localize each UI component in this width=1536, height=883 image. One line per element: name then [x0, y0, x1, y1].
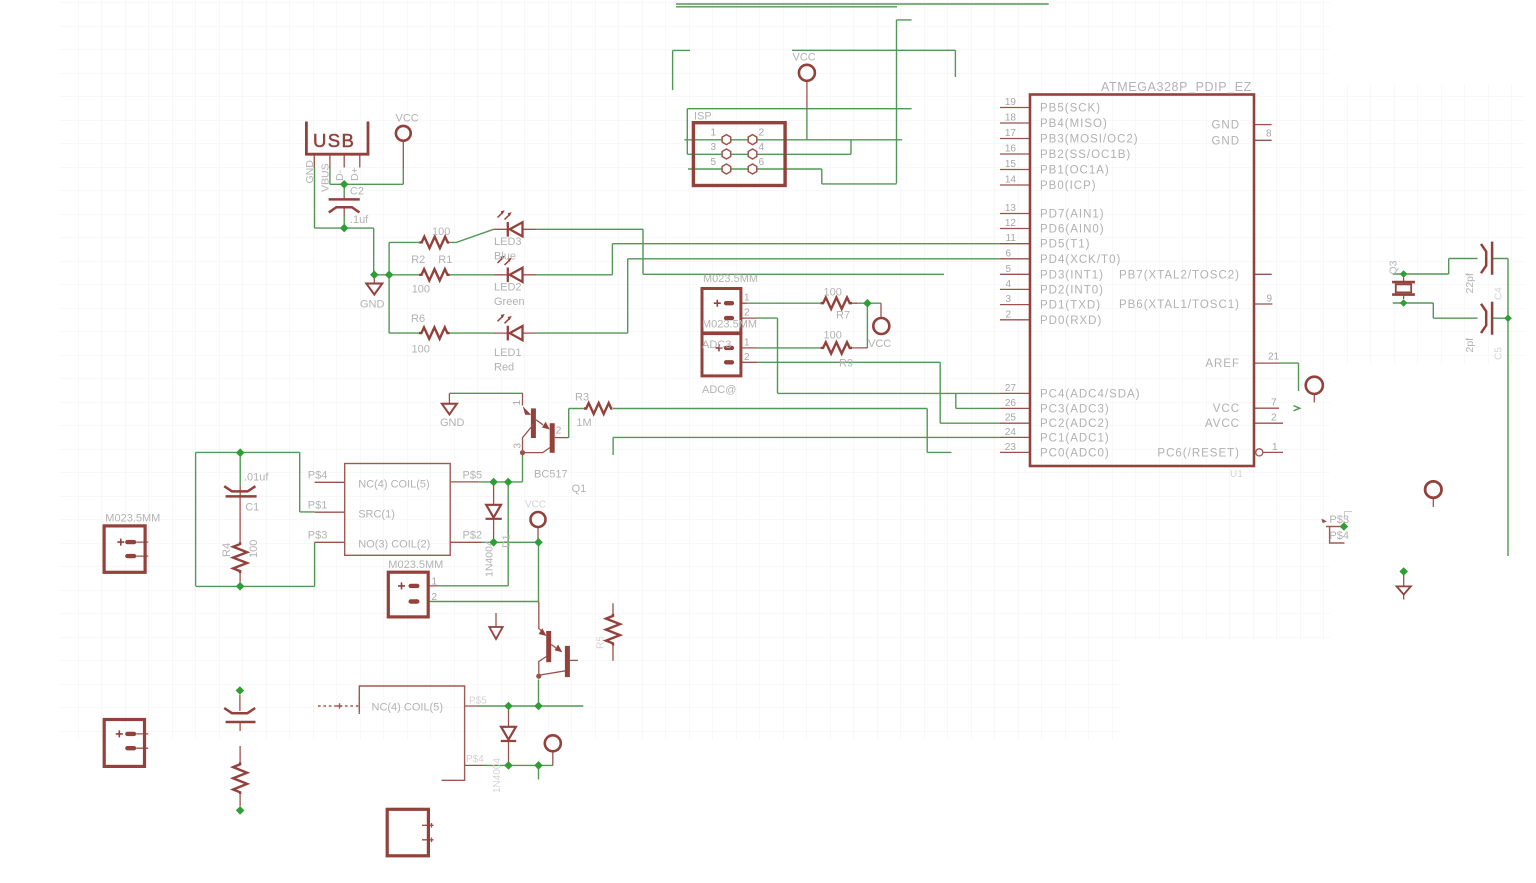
svg-text:8: 8 [1266, 129, 1272, 140]
svg-text:PB2(SS/OC1B): PB2(SS/OC1B) [1040, 149, 1131, 161]
svg-text:R2: R2 [411, 254, 425, 266]
svg-text:PD2(INT0): PD2(INT0) [1040, 284, 1104, 296]
svg-text:PD5(T1): PD5(T1) [1040, 239, 1090, 251]
svg-text:ADC@: ADC@ [702, 384, 736, 396]
svg-text:GND: GND [440, 417, 465, 429]
svg-text:P$3: P$3 [308, 530, 328, 542]
svg-text:PC4(ADC4/SDA): PC4(ADC4/SDA) [1040, 388, 1141, 400]
svg-text:Q1: Q1 [572, 483, 587, 495]
svg-text:D+: D+ [349, 167, 361, 181]
svg-text:1M: 1M [576, 417, 591, 429]
svg-text:2pf: 2pf [1464, 338, 1476, 353]
svg-text:C5: C5 [1494, 347, 1505, 360]
svg-text:LED2: LED2 [494, 281, 522, 293]
svg-text:PC6(/RESET): PC6(/RESET) [1157, 447, 1240, 459]
svg-text:100: 100 [824, 287, 842, 299]
svg-text:Q3: Q3 [1388, 260, 1400, 274]
svg-text:13: 13 [1005, 203, 1017, 214]
svg-text:SRC(1): SRC(1) [358, 509, 395, 521]
svg-text:15: 15 [1005, 159, 1017, 170]
svg-text:P$1: P$1 [308, 500, 328, 512]
svg-text:R4: R4 [221, 543, 233, 557]
svg-text:GND: GND [360, 299, 385, 311]
svg-text:PC3(ADC3): PC3(ADC3) [1040, 403, 1110, 415]
svg-text:2: 2 [744, 308, 750, 319]
svg-text:4: 4 [1005, 279, 1011, 290]
svg-text:26: 26 [1005, 398, 1017, 409]
svg-text:VCC: VCC [793, 52, 816, 64]
svg-text:R6: R6 [411, 313, 425, 325]
svg-text:14: 14 [1005, 175, 1017, 186]
svg-text:4: 4 [759, 142, 765, 153]
svg-text:PC0(ADC0): PC0(ADC0) [1040, 447, 1110, 459]
svg-text:11: 11 [1006, 233, 1017, 244]
svg-text:ATMEGA328P_PDIP_EZ: ATMEGA328P_PDIP_EZ [1101, 80, 1252, 94]
svg-text:VCC: VCC [525, 500, 546, 511]
svg-text:P$4: P$4 [308, 469, 328, 481]
svg-text:2: 2 [759, 128, 765, 139]
svg-text:PD0(RXD): PD0(RXD) [1040, 315, 1102, 327]
svg-text:17: 17 [1005, 128, 1017, 139]
svg-text:2: 2 [1271, 413, 1277, 424]
svg-text:100: 100 [248, 540, 260, 558]
svg-text:PC1(ADC1): PC1(ADC1) [1040, 432, 1110, 444]
svg-text:100: 100 [412, 284, 430, 296]
svg-text:5: 5 [1005, 264, 1011, 275]
svg-text:AREF: AREF [1205, 358, 1240, 370]
svg-text:27: 27 [1005, 383, 1017, 394]
svg-text:19: 19 [1005, 97, 1017, 108]
svg-text:R3: R3 [575, 392, 589, 404]
svg-text:R9: R9 [839, 358, 853, 370]
svg-text:Green: Green [494, 296, 525, 308]
svg-text:1: 1 [432, 576, 438, 587]
svg-text:100: 100 [432, 226, 450, 238]
svg-text:P$4: P$4 [466, 754, 484, 765]
svg-text:U1: U1 [1230, 469, 1243, 480]
svg-text:5: 5 [711, 157, 717, 168]
svg-text:VBUS: VBUS [320, 163, 332, 192]
svg-text:100: 100 [824, 329, 842, 341]
svg-text:25: 25 [1005, 413, 1017, 424]
svg-text:PD1(TXD): PD1(TXD) [1040, 300, 1101, 312]
svg-text:C2: C2 [350, 185, 364, 197]
svg-text:12: 12 [1005, 218, 1017, 229]
svg-text:3: 3 [513, 443, 524, 449]
svg-text:VCC: VCC [868, 338, 891, 350]
svg-text:1: 1 [744, 293, 750, 304]
svg-text:P$2: P$2 [463, 530, 483, 542]
svg-text:9: 9 [1267, 294, 1273, 305]
svg-text:M023.5MM: M023.5MM [105, 513, 160, 525]
svg-text:M023.5MM: M023.5MM [703, 273, 758, 285]
svg-text:R5: R5 [596, 636, 607, 649]
svg-text:NO(3) COIL(2): NO(3) COIL(2) [358, 539, 430, 551]
svg-text:M023.5MM: M023.5MM [702, 319, 757, 331]
svg-text:16: 16 [1005, 144, 1017, 155]
svg-text:PD3(INT1): PD3(INT1) [1040, 269, 1104, 281]
svg-text:P$4: P$4 [1329, 530, 1349, 542]
svg-text:PD7(AIN1): PD7(AIN1) [1040, 209, 1105, 221]
svg-text:1: 1 [711, 128, 717, 139]
svg-text:P$5: P$5 [469, 696, 487, 707]
svg-text:PB0(ICP): PB0(ICP) [1040, 180, 1097, 192]
svg-text:C4: C4 [1494, 287, 1505, 300]
svg-text:USB: USB [313, 130, 355, 151]
svg-text:PD4(XCK/T0): PD4(XCK/T0) [1040, 254, 1121, 266]
svg-text:GND: GND [1211, 120, 1240, 132]
svg-text:NC(4) COIL(5): NC(4) COIL(5) [358, 479, 430, 491]
svg-text:1: 1 [1272, 442, 1278, 453]
svg-text:D-: D- [334, 169, 346, 181]
svg-text:PB6(XTAL1/TOSC1): PB6(XTAL1/TOSC1) [1119, 299, 1240, 311]
svg-text:22pf: 22pf [1464, 273, 1476, 294]
svg-text:ISP: ISP [694, 111, 712, 123]
svg-text:C1: C1 [245, 502, 259, 514]
svg-text:24: 24 [1005, 427, 1017, 438]
svg-text:PB1(OC1A): PB1(OC1A) [1040, 165, 1110, 177]
svg-text:NC(4) COIL(5): NC(4) COIL(5) [372, 701, 444, 713]
svg-text:LED1: LED1 [494, 347, 522, 359]
svg-text:.1uf: .1uf [350, 214, 369, 226]
svg-text:3: 3 [711, 142, 717, 153]
svg-text:21: 21 [1268, 352, 1280, 363]
svg-text:1: 1 [512, 400, 523, 406]
svg-text:18: 18 [1005, 113, 1017, 124]
svg-text:VCC: VCC [1213, 403, 1240, 415]
svg-text:ADC3: ADC3 [702, 339, 731, 351]
svg-text:M023.5MM: M023.5MM [388, 559, 443, 571]
svg-text:6: 6 [1005, 248, 1011, 259]
svg-text:D1: D1 [501, 534, 513, 548]
svg-text:PC2(ADC2): PC2(ADC2) [1040, 418, 1110, 430]
svg-text:PB7(XTAL2/TOSC2): PB7(XTAL2/TOSC2) [1119, 269, 1240, 281]
svg-text:BC517: BC517 [534, 469, 568, 481]
svg-text:3: 3 [1005, 294, 1011, 305]
svg-text:VCC: VCC [396, 113, 419, 125]
svg-text:AVCC: AVCC [1205, 418, 1240, 430]
svg-text:1N4004: 1N4004 [492, 758, 503, 793]
svg-text:2: 2 [432, 592, 438, 603]
svg-text:1: 1 [744, 337, 750, 348]
svg-text:2: 2 [744, 352, 750, 363]
svg-text:PD6(AIN0): PD6(AIN0) [1040, 224, 1105, 236]
svg-text:P$5: P$5 [463, 470, 483, 482]
svg-text:GND: GND [304, 160, 316, 184]
svg-text:R1: R1 [438, 254, 452, 266]
svg-text:2: 2 [1005, 309, 1011, 320]
svg-text:R7: R7 [836, 310, 850, 322]
svg-text:7: 7 [1271, 398, 1277, 409]
svg-text:PB4(MISO): PB4(MISO) [1040, 118, 1108, 130]
svg-text:PB5(SCK): PB5(SCK) [1040, 103, 1101, 115]
svg-text:100: 100 [412, 344, 430, 356]
svg-text:Blue: Blue [494, 251, 516, 263]
svg-text:.01uf: .01uf [244, 472, 269, 484]
svg-text:PB3(MOSI/OC2): PB3(MOSI/OC2) [1040, 134, 1139, 146]
svg-text:Red: Red [494, 362, 514, 374]
svg-text:2: 2 [556, 426, 562, 437]
svg-text:GND: GND [1211, 135, 1240, 147]
svg-text:LED3: LED3 [494, 236, 522, 248]
svg-text:6: 6 [759, 157, 765, 168]
svg-text:23: 23 [1005, 442, 1017, 453]
